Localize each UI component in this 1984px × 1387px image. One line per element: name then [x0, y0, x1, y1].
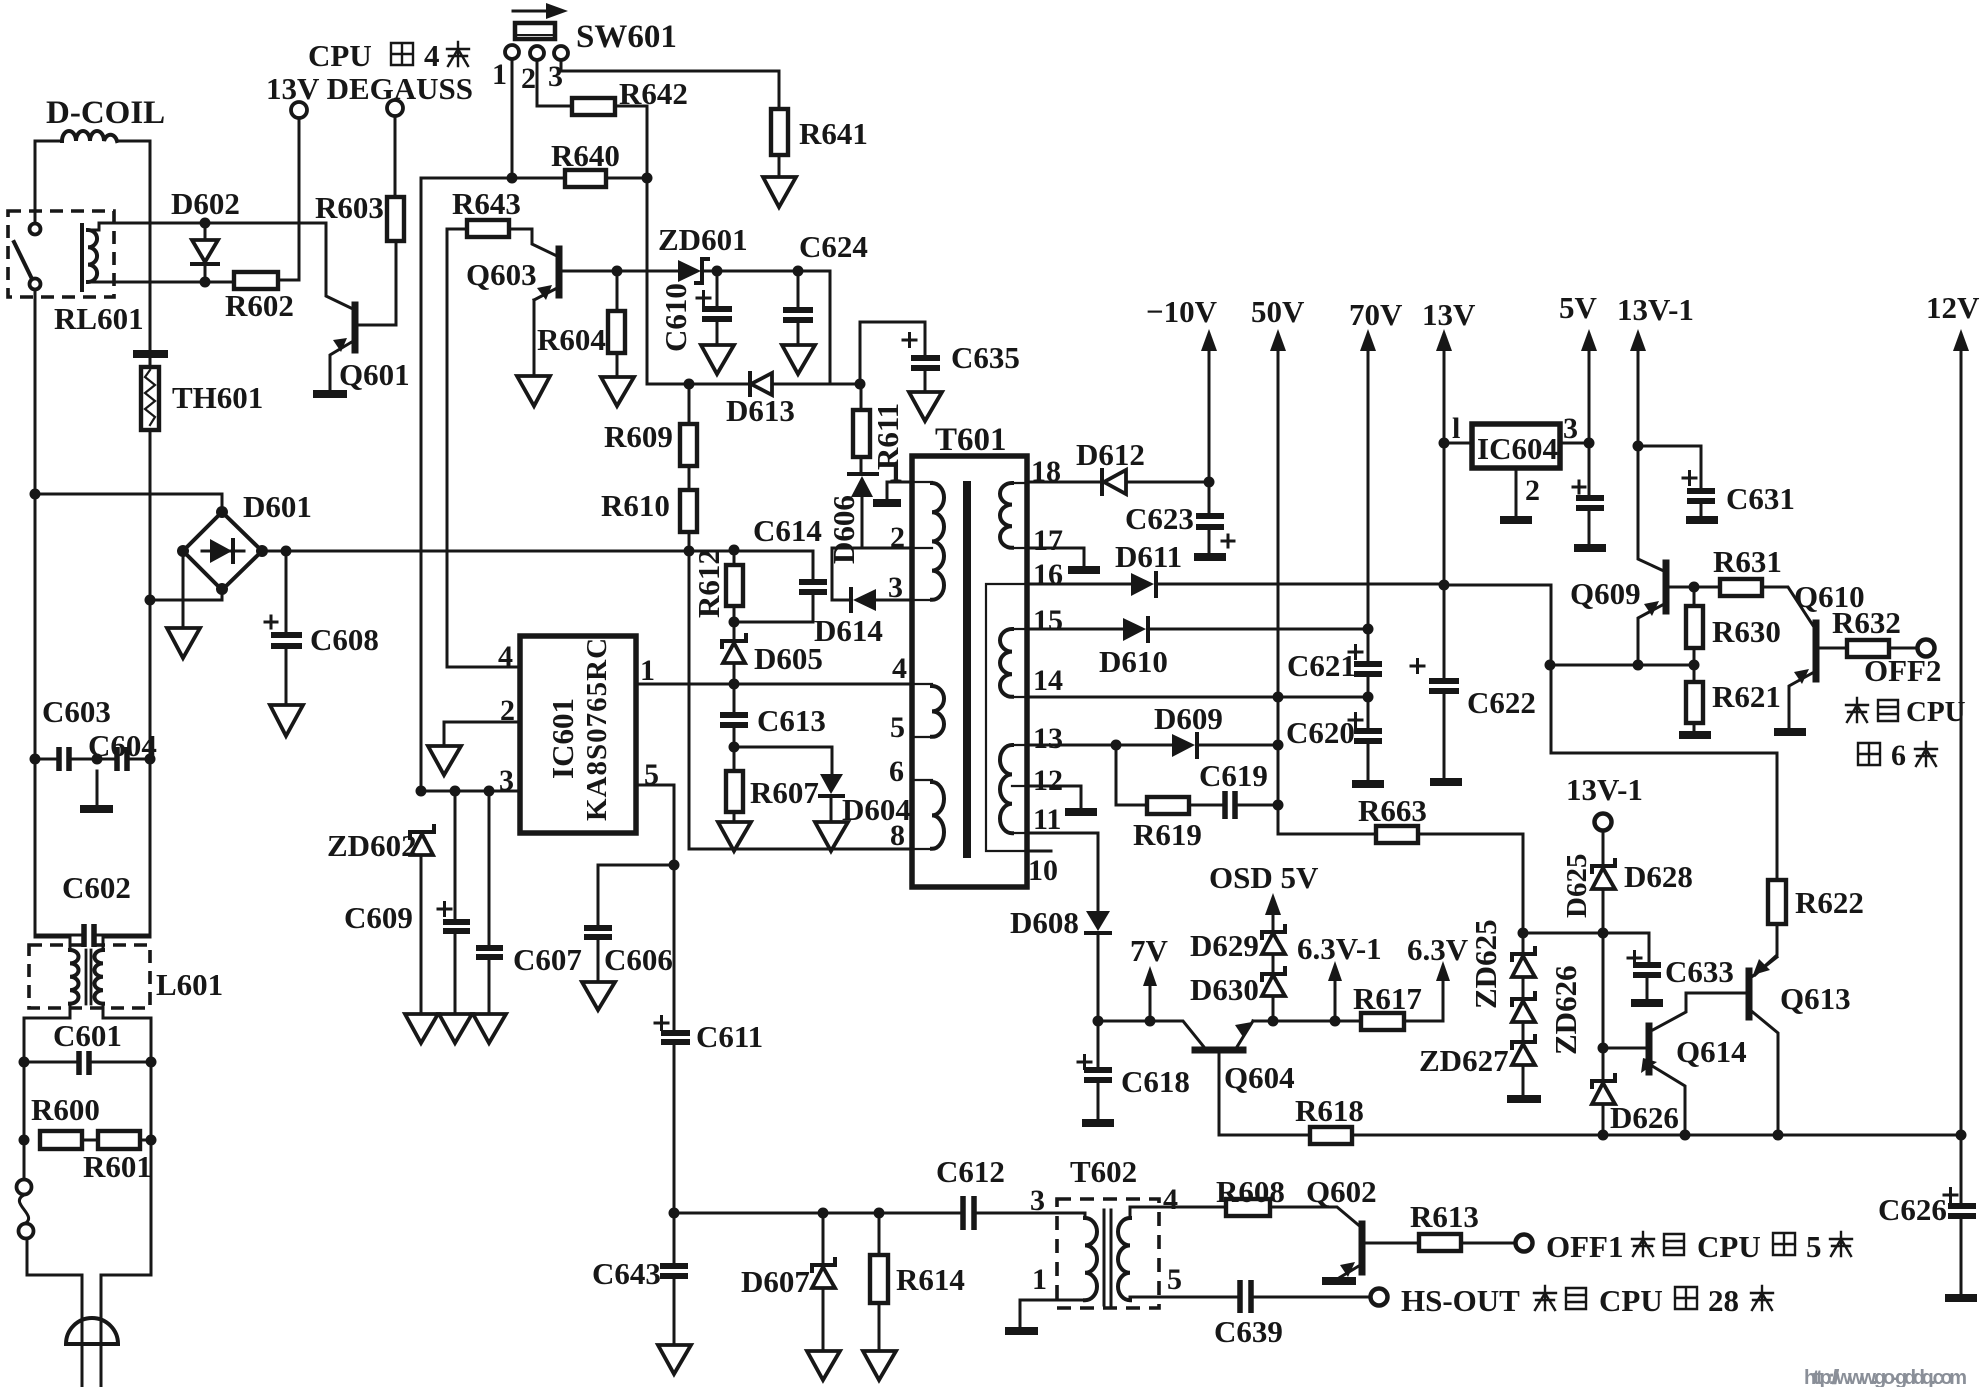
svg-text:R618: R618 [1295, 1093, 1364, 1128]
wire R602 right to 13V node [278, 223, 299, 280]
wire ZD601 to C624 corner [702, 271, 830, 384]
capacitor C635 [911, 358, 940, 368]
svg-text:ZD627: ZD627 [1419, 1043, 1509, 1078]
svg-text:ZD601: ZD601 [658, 222, 748, 257]
svg-text:5V: 5V [1559, 290, 1598, 325]
rail 13V arrow [1443, 345, 1446, 585]
capacitor C618 [1097, 1021, 1100, 1068]
junction dot bus Q614 [1680, 1130, 1691, 1141]
wire R601 down to plug [101, 1140, 151, 1344]
junction dot D613 right [855, 379, 866, 390]
svg-text:C631: C631 [1726, 481, 1795, 516]
junction dot zener chain top [1518, 928, 1529, 939]
junction dot bus Q613 [1773, 1130, 1784, 1141]
SW601 terminal 1 [505, 45, 519, 59]
svg-text:KA8S0765RC: KA8S0765RC [581, 637, 613, 821]
diode D609 [1172, 734, 1195, 757]
zener ZD602 [410, 826, 434, 838]
terminal HS-OUT [1371, 1289, 1388, 1306]
wire bridge plus output [262, 550, 688, 553]
capacitor C613 [733, 684, 736, 713]
fuse F601 [23, 1140, 26, 1179]
svg-text:Q603: Q603 [466, 257, 537, 292]
wire D628 node down to Q614 base [1602, 933, 1605, 1048]
junction dot C610 top [712, 266, 723, 277]
ground triangle ZD602 [405, 1014, 438, 1043]
svg-text:Q602: Q602 [1306, 1174, 1377, 1209]
terminal 13V [291, 102, 307, 118]
rail 70V arrow [1367, 345, 1370, 629]
svg-text:C609: C609 [344, 900, 413, 935]
svg-text:C635: C635 [951, 340, 1020, 375]
capacitor C611 [673, 865, 676, 1031]
svg-text:R603: R603 [315, 190, 384, 225]
svg-text:5: 5 [1167, 1263, 1182, 1296]
svg-text:1: 1 [1032, 1263, 1047, 1296]
wire L601 left out [24, 1004, 70, 1062]
svg-text:R617: R617 [1353, 981, 1422, 1016]
junction dot D602 top [200, 218, 211, 229]
wire right vertical D-COIL down [149, 141, 152, 367]
wire pin18 row [1027, 481, 1209, 484]
svg-text:4: 4 [892, 652, 907, 685]
capacitor C609 [454, 791, 457, 919]
svg-text:5: 5 [890, 711, 905, 744]
wire C613 to D604 [734, 747, 832, 774]
ground triangle C606 [582, 982, 615, 1010]
wire SW601-3 to R641 [561, 60, 779, 109]
junction dot 13V-IC604 [1439, 438, 1450, 449]
svg-text:C610: C610 [658, 283, 693, 352]
resistor R630 [1693, 587, 1696, 606]
6.3V-1 arrow [1334, 976, 1337, 1021]
diode D610 [1123, 618, 1146, 641]
resistor R631 [1720, 579, 1762, 596]
junction dot pin3-ZD602 [416, 786, 427, 797]
svg-text:50V: 50V [1251, 294, 1305, 329]
svg-text:3: 3 [1563, 412, 1578, 445]
plug P601 [66, 1318, 118, 1344]
svg-text:TH601: TH601 [172, 380, 263, 415]
svg-text:C643: C643 [592, 1256, 661, 1291]
svg-text:16: 16 [1033, 558, 1063, 591]
ground bar IC604 pin2 [1500, 516, 1532, 524]
IC601 pin3 wire [421, 790, 520, 793]
bridge rectifier D601 diamond [183, 512, 262, 590]
svg-text:IC604: IC604 [1477, 431, 1558, 466]
svg-text:OFF1: OFF1 [1546, 1229, 1624, 1264]
wire SW601-1 down [511, 59, 514, 178]
wire TH601 down [149, 430, 152, 601]
svg-text:5: 5 [644, 758, 659, 791]
svg-text:l: l [1452, 412, 1460, 445]
wire 13V-1 node down to Q609 [1638, 446, 1666, 572]
transformer T602 dashed box [1057, 1199, 1159, 1308]
junction dot D607 [818, 1208, 829, 1219]
svg-text:10: 10 [1028, 854, 1058, 887]
resistor R602 [234, 272, 278, 289]
L601 left winding [70, 950, 79, 1004]
junction dot D602 bottom [200, 277, 211, 288]
svg-text:D626: D626 [1610, 1100, 1679, 1135]
junction dot 7V node left [1093, 1016, 1104, 1027]
svg-text:5: 5 [1806, 1229, 1822, 1264]
ground bar C623 [1194, 553, 1226, 561]
wire 13V-1 node to C631 [1638, 446, 1701, 489]
svg-text:C612: C612 [936, 1154, 1005, 1189]
T602 core [1104, 1210, 1111, 1305]
svg-text:C618: C618 [1121, 1064, 1190, 1099]
svg-text:8: 8 [890, 819, 905, 852]
rail 13V-1 arrow [1637, 345, 1640, 446]
wire D-COIL left lead [35, 140, 62, 143]
junction dot pin4 line [729, 679, 740, 690]
svg-text:D612: D612 [1076, 437, 1145, 472]
svg-text:13: 13 [1033, 722, 1063, 755]
T601 primary winding 1-3 [932, 483, 944, 600]
ground bar C603/C604 [80, 805, 113, 813]
ground bar C631 [1686, 516, 1718, 524]
svg-text:D614: D614 [814, 613, 883, 648]
ground triangle R641 [763, 177, 796, 207]
svg-text:6.3V-1: 6.3V-1 [1297, 931, 1382, 966]
wire 13V feed to mid row [1444, 585, 1551, 665]
junction dot R609 top [684, 379, 695, 390]
ground bar R621 [1679, 731, 1711, 739]
svg-text:R630: R630 [1712, 614, 1781, 649]
ground bar pin1 [873, 499, 901, 507]
junction dot D630 bottom [1268, 1016, 1279, 1027]
svg-text:D601: D601 [243, 489, 312, 524]
junction dot D628 bottom [1598, 928, 1609, 939]
wire R642 right then down [615, 106, 647, 178]
node D602 top wire [205, 222, 299, 225]
capacitor at 5V output [1588, 443, 1591, 496]
wire into L601 left [35, 935, 70, 948]
capacitor C618 plus [1078, 1056, 1091, 1069]
ground bar T602 pin1 [1005, 1327, 1038, 1335]
svg-text:1: 1 [492, 58, 507, 91]
OSD 5V arrow [1272, 909, 1275, 932]
svg-text:3: 3 [888, 571, 903, 604]
junction dot AC right [145, 595, 156, 606]
junction dot C603 left [30, 754, 41, 765]
svg-text:Q601: Q601 [339, 357, 410, 392]
ground triangle C607 [473, 1014, 506, 1043]
svg-text:CPU: CPU [1697, 1229, 1761, 1264]
capacitor C622 [1443, 585, 1446, 678]
svg-text:6: 6 [1891, 739, 1906, 772]
svg-text:R621: R621 [1712, 679, 1781, 714]
wire pin13 row (D609 line) [1027, 744, 1278, 747]
wire R613 to OFF1 [1461, 1242, 1515, 1245]
ground triangle D607 [807, 1351, 840, 1380]
T601 core [963, 481, 971, 858]
ground bar C620 [1352, 780, 1384, 788]
wire pin16 row (D611 line) [1027, 583, 1443, 586]
junction dot C601 right [146, 1057, 157, 1068]
wire T602 pin4 to R608 [1130, 1207, 1226, 1218]
transistor Q601 [352, 305, 359, 350]
wire R663 to zener chain [1418, 834, 1523, 933]
junction dot C603/C604 [92, 754, 103, 765]
wire pin14 row [1027, 696, 1368, 699]
svg-text:C606: C606 [604, 942, 673, 977]
svg-text:C621: C621 [1287, 648, 1356, 683]
relay coil core line [80, 225, 84, 290]
zener ZD625 [1522, 933, 1525, 954]
svg-text:R641: R641 [799, 116, 868, 151]
svg-text:CPU: CPU [1906, 696, 1966, 728]
junction dot 7V arrow [1145, 1016, 1156, 1027]
rail -10V arrow [1208, 345, 1211, 482]
capacitor C623 [1208, 482, 1211, 513]
capacitor C626 plus [1944, 1189, 1957, 1202]
svg-text:http://www.go-gddq.com: http://www.go-gddq.com [1804, 1367, 1967, 1387]
wire Q609 base row [1668, 586, 1720, 589]
junction dot C624 top [793, 266, 804, 277]
svg-text:C626: C626 [1878, 1192, 1947, 1227]
svg-text:R614: R614 [896, 1262, 965, 1297]
svg-text:15: 15 [1033, 604, 1063, 637]
regulator IC604 box [1472, 424, 1560, 468]
svg-text:12V: 12V [1926, 290, 1980, 325]
relay coil RL601 winding [88, 230, 97, 282]
svg-text:C639: C639 [1214, 1314, 1283, 1349]
junction dot R630/R621 [1689, 660, 1700, 671]
svg-text:R631: R631 [1713, 544, 1782, 579]
junction dot R600 left [19, 1135, 30, 1146]
svg-text:R622: R622 [1795, 885, 1864, 920]
wire R622 to Q613 emitter [1755, 924, 1777, 975]
wire 13V terminal down [298, 118, 301, 223]
junction dot C601 left [19, 1057, 30, 1068]
zener ZD627 [1522, 1022, 1525, 1042]
wire R632 to OFF2 terminal [1889, 647, 1917, 650]
capacitor C603 [59, 747, 69, 771]
inductor D-COIL [62, 131, 117, 141]
junction dot C619-50V [1273, 800, 1284, 811]
junction dot R630 top [1689, 582, 1700, 593]
capacitor C633 plus [1628, 952, 1641, 965]
junction dot R604 top [612, 266, 623, 277]
junction dot bridge top [216, 506, 228, 518]
wire D-COIL right lead [117, 140, 150, 143]
svg-text:R663: R663 [1358, 793, 1427, 828]
resistor R619 [1147, 797, 1189, 814]
svg-text:4: 4 [498, 640, 513, 673]
svg-text:D610: D610 [1099, 644, 1168, 679]
svg-text:C633: C633 [1665, 954, 1734, 989]
ground triangle R614 [863, 1351, 896, 1380]
junction dot 5V node [1584, 438, 1595, 449]
ground bar 5V cap [1574, 544, 1606, 552]
svg-text:IC601: IC601 [545, 698, 580, 779]
wire R619 branch [1116, 745, 1147, 805]
svg-text:2: 2 [890, 521, 905, 554]
wire 7V node right segment [1253, 1020, 1443, 1023]
wire fuse down to plug [27, 1239, 82, 1344]
svg-text:Q613: Q613 [1780, 981, 1851, 1016]
capacitor C639 [1240, 1280, 1251, 1313]
T602 secondary winding [1118, 1218, 1130, 1300]
capacitor C611 plus [655, 1017, 668, 1030]
zener D630 [1272, 996, 1275, 1021]
svg-text:13V-1: 13V-1 [1617, 292, 1694, 327]
relay switch contact bottom [30, 279, 41, 290]
capacitor C624 [797, 271, 800, 307]
ground triangle bridge minus [167, 628, 200, 658]
rail 50V arrow [1277, 345, 1280, 834]
svg-text:Q604: Q604 [1224, 1060, 1295, 1095]
SW601 terminal 3 [554, 46, 568, 60]
junction dot Q614 base [1598, 1043, 1609, 1054]
ground bar pin17 [1068, 566, 1100, 574]
transistor Q610 [1813, 623, 1820, 679]
wire pin17 row [1027, 548, 1084, 568]
resistor R612 [733, 550, 736, 565]
diode D611 [1131, 573, 1154, 596]
svg-text:D625: D625 [1561, 854, 1593, 918]
resistor R608 [1226, 1199, 1270, 1216]
wire right vertical to C602 row [149, 759, 152, 935]
svg-text:11: 11 [1033, 803, 1061, 836]
capacitor C610 [716, 271, 719, 306]
resistor R601 [98, 1131, 140, 1149]
svg-text:D613: D613 [726, 393, 795, 428]
IC604 pin3 wire [1560, 442, 1589, 445]
ground triangle R607 [718, 822, 751, 851]
svg-text:OSD 5V: OSD 5V [1209, 860, 1319, 895]
svg-text:−10V: −10V [1146, 294, 1218, 329]
capacitor C603 row wire [35, 758, 150, 761]
svg-text:L601: L601 [156, 967, 223, 1002]
junction dot R612 top [729, 545, 740, 556]
zener ZD601 [678, 260, 701, 282]
junction dot R640 right [642, 173, 653, 184]
wire 13V rail upper [1443, 443, 1446, 585]
svg-text:6: 6 [889, 755, 904, 788]
svg-text:SW601: SW601 [576, 19, 677, 55]
svg-text:C622: C622 [1467, 685, 1536, 720]
wire mid row down to R622 feed [1551, 665, 1777, 880]
T601 secondary winding 13-11 [1000, 745, 1012, 833]
label pin6 (的 6 脚) [1858, 743, 1880, 765]
zener ZD626 [1522, 977, 1525, 999]
diode D614 [853, 589, 876, 611]
junction dot R601 right [146, 1135, 157, 1146]
capacitor C609 plus [438, 903, 451, 916]
svg-text:D-COIL: D-COIL [46, 95, 165, 131]
ground triangle Q603 [517, 376, 550, 406]
capacitor C607 [488, 791, 491, 945]
IC601 box [520, 636, 636, 833]
transistor Q602 [1359, 1224, 1366, 1272]
resistor R621 [1693, 665, 1696, 682]
bridge D601 internal diode [202, 550, 244, 553]
transistor Q609 [1663, 563, 1670, 611]
resistor R618 [1310, 1127, 1352, 1144]
svg-text:R610: R610 [601, 488, 670, 523]
junction dot R612 bottom [729, 617, 740, 628]
resistor R640 [565, 170, 606, 187]
wire T602 pin3 into coil [1084, 1213, 1087, 1218]
transistor Q604 [1195, 1047, 1243, 1054]
capacitor C602 [84, 924, 94, 947]
L601 core [86, 950, 91, 1004]
wire relay coil top to D602 node [88, 223, 205, 230]
svg-text:R601: R601 [83, 1149, 152, 1184]
svg-text:R640: R640 [551, 138, 620, 173]
svg-text:RL601: RL601 [54, 301, 144, 336]
junction dot bottom bus left [669, 1208, 680, 1219]
switch SW601 body [515, 23, 555, 39]
svg-text:R609: R609 [604, 419, 673, 454]
svg-text:C611: C611 [696, 1019, 763, 1054]
junction dot bridge right [256, 545, 268, 557]
svg-text:C603: C603 [42, 694, 111, 729]
wire x150 vertical to C603 row [149, 600, 152, 759]
wire zener chain top row [1523, 933, 1649, 963]
wire AC left to bridge top [35, 494, 222, 511]
junction dot B+ at C608 [281, 546, 292, 557]
wire C608 stem [285, 551, 288, 631]
resistor R614 [878, 1213, 881, 1255]
wire T601 pin11 to D608 [1027, 833, 1098, 911]
wire pin15 row (D610 line) [1027, 628, 1368, 631]
relay RL601 dashed box [8, 211, 114, 297]
wire D613 row [647, 178, 860, 384]
wire T602 pin5 to C639 [1130, 1297, 1236, 1300]
wire T601 pin2 row [832, 547, 912, 550]
svg-text:C619: C619 [1199, 758, 1268, 793]
wire bridge left corner down to AC line [182, 551, 185, 600]
wire Q610 collector to R632 [1818, 647, 1847, 650]
svg-text:D630: D630 [1190, 972, 1259, 1007]
wire T601 pin10 stub [1027, 850, 1051, 853]
svg-text:R612: R612 [691, 549, 726, 618]
resistor R663 [1376, 826, 1418, 843]
wire Q604 base down to R618 bus [1219, 1054, 1310, 1135]
wire Q603 base row [561, 270, 678, 273]
capacitor C610 plus [697, 292, 710, 305]
wire B+ to pin8 [689, 551, 912, 849]
svg-text:D611: D611 [1115, 539, 1182, 574]
junction dot bridge bottom [216, 583, 228, 595]
ground triangle C624 [782, 345, 815, 374]
SW601 terminal 2 [530, 46, 544, 60]
junction dot R614 [874, 1208, 885, 1219]
wire between R600 R601 [82, 1139, 151, 1142]
svg-text:2: 2 [521, 62, 536, 95]
junction dot R619 top [1111, 740, 1122, 751]
resistor R611 [860, 384, 863, 410]
capacitor at 5V output plus [1573, 481, 1585, 493]
wire DEGAUSS terminal to R603 [394, 116, 397, 197]
terminal DEGAUSS [387, 100, 403, 116]
ground bar ZD627 [1507, 1095, 1541, 1103]
junction dot Q609 emitter [1633, 660, 1644, 671]
wire C601 to R600 row left [23, 1062, 26, 1140]
svg-text:13V-1: 13V-1 [1566, 772, 1643, 807]
line filter L601 dashed box [29, 945, 150, 1008]
ground triangle C609 [439, 1014, 472, 1043]
svg-text:R600: R600 [31, 1092, 100, 1127]
zener D607 [822, 1213, 825, 1265]
capacitor C612 [963, 1196, 974, 1230]
diode D602 [204, 223, 207, 282]
svg-text:Q609: Q609 [1570, 576, 1641, 611]
